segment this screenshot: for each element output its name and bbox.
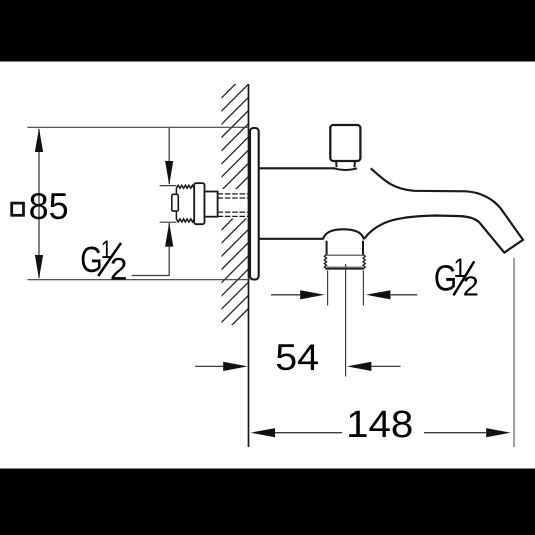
dimension 85: vertical line [38, 129, 40, 278]
dim 54 right arrow [347, 362, 371, 371]
body top line [259, 167, 335, 169]
pipes through wall (dashed) [218, 194, 250, 217]
G1/2 left fraction slash [98, 243, 121, 276]
diverter knob [330, 125, 360, 161]
outlet cylinder sides [327, 241, 363, 255]
wall plate (escutcheon) [250, 128, 259, 280]
tick at thread bottom [160, 221, 177, 223]
thru-wall fitting: threaded cylinder with zigzag edges [176, 185, 194, 222]
outlet thread shoulder line [327, 254, 363, 256]
wall hatching (lower part) [208, 189, 262, 349]
svg-text:54: 54 [275, 337, 319, 379]
svg-text:148: 148 [346, 404, 413, 446]
svg-text:85: 85 [29, 185, 69, 227]
top extension line (plate top, y=127.3) [28, 126, 249, 128]
fitting block [205, 192, 218, 217]
thread OD dim left arrow [271, 294, 300, 296]
G1/2 left: down arrow [165, 161, 173, 185]
outlet thread root line [327, 266, 363, 268]
outlet left extension line [327, 271, 329, 306]
wall face line [248, 84, 250, 447]
dim 148 left arrow [251, 428, 275, 437]
bottom extension line (plate bottom, y=279.7) [28, 279, 251, 281]
G1/2 right fraction slash [454, 261, 475, 295]
dimension 85: down arrow [35, 255, 43, 279]
dimension 85: up arrow [35, 128, 43, 152]
square symbol of □85 [12, 203, 24, 215]
G1/2 right label [434, 253, 479, 301]
dim 54 left arrow [195, 365, 223, 367]
outlet threads right zigzag [363, 255, 365, 269]
outlet threads left zigzag [324, 255, 326, 269]
G1/2 left: up arrow [165, 223, 173, 247]
dip under knob stem [334, 168, 357, 170]
G1/2 left label [80, 236, 127, 286]
tick at thread top [160, 185, 177, 187]
knob stem [336, 161, 355, 168]
outlet dome [323, 229, 364, 239]
fitting flange [194, 183, 204, 224]
body bottom line [259, 238, 323, 240]
G1/2 left: lower segment + leader to text [132, 223, 170, 276]
spout contour [364, 168, 523, 252]
wall hatching (upper part) [208, 57, 262, 217]
G1/2 left: vertical dim line upper segment [168, 128, 170, 184]
top transparent-black band [0, 0, 535, 62]
thread OD dim right arrow [366, 290, 390, 299]
bottom transparent-black band [0, 469, 535, 535]
outlet bottom edge [326, 268, 365, 270]
dim 148 right arrow [424, 432, 486, 434]
outlet right extension line [362, 271, 364, 306]
fitting nose cap [172, 194, 179, 211]
right extension line (spout tip) [513, 258, 515, 447]
outlet center extension line [345, 264, 347, 377]
